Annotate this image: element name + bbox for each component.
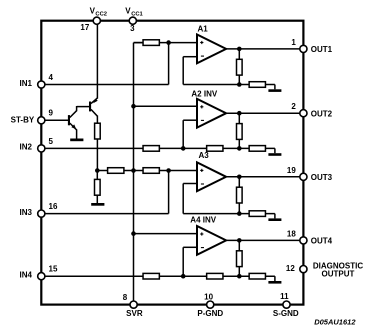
svg-text:OUTPUT: OUTPUT xyxy=(322,269,355,278)
svg-text:18: 18 xyxy=(287,229,296,238)
svg-text:ST-BY: ST-BY xyxy=(11,115,35,124)
svg-text:OUT3: OUT3 xyxy=(311,173,333,182)
svg-text:5: 5 xyxy=(49,137,54,146)
svg-text:A3: A3 xyxy=(199,151,210,160)
svg-text:19: 19 xyxy=(287,166,296,175)
svg-text:OUT2: OUT2 xyxy=(311,110,333,119)
svg-text:S-GND: S-GND xyxy=(273,309,299,318)
svg-text:3: 3 xyxy=(130,24,135,33)
svg-text:OUT4: OUT4 xyxy=(311,237,333,246)
svg-text:A2 INV: A2 INV xyxy=(191,90,217,99)
svg-text:A4 INV: A4 INV xyxy=(190,216,216,225)
svg-text:15: 15 xyxy=(49,265,58,274)
svg-text:P-GND: P-GND xyxy=(197,309,223,318)
svg-text:A1: A1 xyxy=(198,24,209,33)
svg-text:SVR: SVR xyxy=(126,309,143,318)
svg-text:D05AU1612: D05AU1612 xyxy=(314,318,356,327)
svg-text:11: 11 xyxy=(280,292,289,301)
svg-text:4: 4 xyxy=(49,73,54,82)
svg-text:10: 10 xyxy=(204,292,213,301)
svg-text:CC2: CC2 xyxy=(95,11,107,17)
svg-text:9: 9 xyxy=(49,109,54,118)
svg-text:IN4: IN4 xyxy=(20,270,33,279)
svg-text:8: 8 xyxy=(123,293,128,302)
svg-text:IN1: IN1 xyxy=(20,79,33,88)
svg-text:1: 1 xyxy=(291,38,296,47)
svg-text:CC1: CC1 xyxy=(131,11,143,17)
svg-text:12: 12 xyxy=(286,264,295,273)
svg-text:17: 17 xyxy=(80,23,89,32)
svg-text:16: 16 xyxy=(49,202,58,211)
svg-text:IN3: IN3 xyxy=(20,208,33,217)
svg-text:OUT1: OUT1 xyxy=(311,45,333,54)
svg-text:2: 2 xyxy=(291,102,296,111)
svg-text:IN2: IN2 xyxy=(20,143,33,152)
